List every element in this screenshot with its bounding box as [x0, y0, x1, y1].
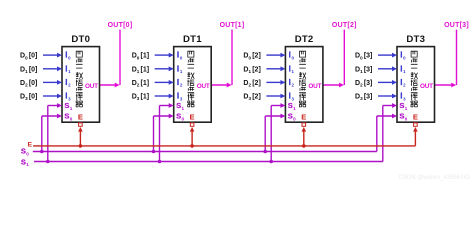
svg-text:D2[1]: D2[1] — [132, 80, 149, 88]
wire D1[1] to pin I1 of DT1 — [155, 66, 174, 71]
wire OUT of DT1 — [211, 30, 232, 88]
pin I0 of DT3 — [400, 51, 406, 61]
svg-text:OUT: OUT — [197, 83, 210, 90]
pin E of DT2 — [301, 113, 306, 127]
pin I1 of DT1 — [177, 64, 183, 74]
wire E bus to pin E of DT1 — [190, 127, 195, 148]
svg-text:OUT: OUT — [85, 83, 98, 90]
svg-text:E: E — [190, 113, 195, 122]
node E net label — [28, 142, 33, 149]
svg-text:D1[3]: D1[3] — [355, 66, 372, 74]
multiplexer U3 (DT2) 4-to-1 data selector box — [285, 47, 323, 123]
wire E bus to pin E of DT2 — [302, 127, 307, 148]
wire S0 bus to pin S0 of DT0 — [40, 114, 62, 154]
node D2[1] label — [132, 80, 149, 88]
svg-text:D1[0]: D1[0] — [20, 66, 37, 74]
wire D2[2] to pin I2 of DT2 — [266, 80, 285, 85]
wire D0[2] to pin I0 of DT2 — [266, 53, 285, 58]
wire D3[2] to pin I3 of DT2 — [266, 94, 285, 99]
svg-text:D3[0]: D3[0] — [20, 94, 37, 102]
pin OUT of DT2 — [308, 83, 321, 90]
wire OUT of DT2 — [323, 30, 344, 88]
multiplexer DT2 title — [295, 34, 314, 45]
wire D3[3] to pin I3 of DT3 — [378, 94, 397, 99]
pin S1 of DT1 — [176, 101, 184, 111]
node D2[3] label — [355, 80, 372, 88]
svg-text:OUT[1]: OUT[1] — [220, 22, 245, 29]
svg-text:D2[2]: D2[2] — [243, 80, 260, 88]
svg-text:D3[1]: D3[1] — [132, 94, 149, 102]
wire D1[2] to pin I1 of DT2 — [266, 66, 285, 71]
node S1 net label — [21, 157, 29, 167]
multiplexer DT0 function text (si xuan yi shu ju xuan ze qi) — [76, 51, 83, 107]
pin I2 of DT3 — [400, 78, 406, 88]
svg-text:OUT[2]: OUT[2] — [332, 22, 357, 29]
svg-text:CSDN @weixin_43956743: CSDN @weixin_43956743 — [399, 175, 471, 181]
node OUT[2] label — [332, 22, 357, 29]
svg-text:D3[3]: D3[3] — [355, 94, 372, 102]
node D2[2] label — [243, 80, 260, 88]
node D3[0] label — [20, 94, 37, 102]
svg-text:D1[2]: D1[2] — [243, 66, 260, 74]
pin S0 of DT3 — [399, 112, 407, 122]
wire D2[1] to pin I2 of DT1 — [155, 80, 174, 85]
svg-text:D3[2]: D3[2] — [243, 94, 260, 102]
pin I2 of DT2 — [289, 78, 295, 88]
node D2[0] label — [20, 80, 37, 88]
svg-text:D0[1]: D0[1] — [132, 53, 149, 61]
multiplexer DT0 title — [71, 34, 90, 45]
node S0 net label — [21, 147, 29, 157]
wire D0[0] to pin I0 of DT0 — [43, 53, 62, 58]
pin I0 of DT2 — [289, 51, 295, 61]
pin I2 of DT1 — [177, 78, 183, 88]
svg-text:DT3: DT3 — [406, 34, 425, 45]
node D0[2] label — [243, 53, 260, 61]
svg-text:D0[2]: D0[2] — [243, 53, 260, 61]
pin E of DT3 — [413, 113, 418, 127]
wire E bus — [33, 145, 415, 147]
svg-text:E: E — [28, 142, 33, 149]
pin I3 of DT0 — [65, 92, 71, 102]
node D3[3] label — [355, 94, 372, 102]
svg-text:OUT: OUT — [420, 83, 433, 90]
pin I3 of DT2 — [289, 92, 295, 102]
wire S1 bus to pin S1 of DT1 — [158, 103, 174, 163]
svg-text:D0[0]: D0[0] — [20, 53, 37, 61]
multiplexer DT3 function text (si xuan yi shu ju xuan ze qi) — [411, 51, 418, 107]
wire S0 bus to pin S0 of DT1 — [152, 114, 174, 154]
pin E of DT0 — [78, 113, 83, 127]
wire D0[1] to pin I0 of DT1 — [155, 53, 174, 58]
wire D1[3] to pin I1 of DT3 — [378, 66, 397, 71]
pin I0 of DT0 — [65, 51, 71, 61]
pin I1 of DT3 — [400, 64, 406, 74]
wire S0 bus — [33, 151, 377, 153]
node OUT[1] label — [220, 22, 245, 29]
node D0[3] label — [355, 53, 372, 61]
pin S1 of DT3 — [399, 101, 407, 111]
svg-text:DT1: DT1 — [183, 34, 202, 45]
wire D2[3] to pin I2 of DT3 — [378, 80, 397, 85]
node D0[1] label — [132, 53, 149, 61]
multiplexer DT3 title — [406, 34, 425, 45]
wire D1[0] to pin I1 of DT0 — [43, 66, 62, 71]
node D1[3] label — [355, 66, 372, 74]
svg-text:D2[3]: D2[3] — [355, 80, 372, 88]
svg-text:E: E — [413, 113, 418, 122]
wire OUT of DT0 — [100, 30, 121, 88]
wire D3[0] to pin I3 of DT0 — [43, 94, 62, 99]
wire S1 bus — [34, 161, 383, 163]
wire S0 bus to pin S0 of DT3 — [377, 114, 397, 152]
wire S1 bus to pin S1 of DT0 — [46, 103, 62, 163]
pin OUT of DT3 — [420, 83, 433, 90]
wire E bus to pin E of DT0 — [78, 127, 83, 148]
svg-text:DT2: DT2 — [295, 34, 314, 45]
multiplexer DT1 function text (si xuan yi shu ju xuan ze qi) — [188, 51, 195, 107]
wire D2[0] to pin I2 of DT0 — [43, 80, 62, 85]
svg-text:E: E — [301, 113, 306, 122]
pin OUT of DT1 — [197, 83, 210, 90]
pin I3 of DT1 — [177, 92, 183, 102]
node D1[1] label — [132, 66, 149, 74]
wire E bus to pin E of DT3 — [413, 127, 418, 146]
pin S0 of DT1 — [176, 112, 184, 122]
wire S0 bus to pin S0 of DT2 — [263, 114, 285, 154]
wire S1 bus to pin S1 of DT2 — [269, 103, 285, 163]
node OUT[0] label — [108, 22, 133, 29]
svg-text:D1[1]: D1[1] — [132, 66, 149, 74]
multiplexer U2 (DT1) 4-to-1 data selector box — [174, 47, 212, 123]
svg-text:OUT[0]: OUT[0] — [108, 22, 133, 29]
multiplexer DT1 title — [183, 34, 202, 45]
svg-text:DT0: DT0 — [71, 34, 90, 45]
svg-text:D0[3]: D0[3] — [355, 53, 372, 61]
pin S0 of DT0 — [64, 112, 72, 122]
svg-text:D2[0]: D2[0] — [20, 80, 37, 88]
multiplexer U4 (DT3) 4-to-1 data selector box — [397, 47, 435, 123]
wire OUT of DT3 — [435, 30, 457, 88]
multiplexer U1 (DT0) 4-to-1 data selector box — [62, 47, 100, 123]
wire S1 bus to pin S1 of DT3 — [383, 103, 397, 161]
pin S1 of DT0 — [64, 101, 72, 111]
node D3[2] label — [243, 94, 260, 102]
watermark — [399, 175, 471, 181]
node D3[1] label — [132, 94, 149, 102]
svg-text:OUT[3]: OUT[3] — [444, 22, 469, 29]
node D0[0] label — [20, 53, 37, 61]
pin I1 of DT0 — [65, 64, 71, 74]
svg-text:OUT: OUT — [308, 83, 321, 90]
pin OUT of DT0 — [85, 83, 98, 90]
wire D0[3] to pin I0 of DT3 — [378, 53, 397, 58]
pin I2 of DT0 — [65, 78, 71, 88]
wire D3[1] to pin I3 of DT1 — [155, 94, 174, 99]
pin E of DT1 — [190, 113, 195, 127]
svg-text:E: E — [78, 113, 83, 122]
pin I3 of DT3 — [400, 92, 406, 102]
pin S1 of DT2 — [288, 101, 296, 111]
pin I1 of DT2 — [289, 64, 295, 74]
node D1[2] label — [243, 66, 260, 74]
multiplexer DT2 function text (si xuan yi shu ju xuan ze qi) — [299, 51, 306, 107]
node OUT[3] label — [444, 22, 469, 29]
node D1[0] label — [20, 66, 37, 74]
pin I0 of DT1 — [177, 51, 183, 61]
pin S0 of DT2 — [288, 112, 296, 122]
